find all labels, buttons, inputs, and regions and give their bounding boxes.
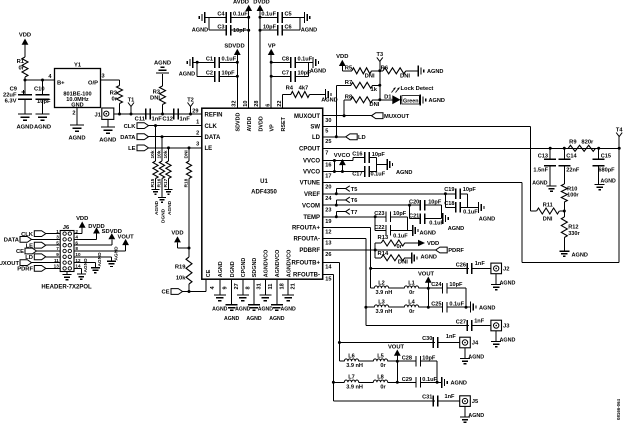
svg-text:9: 9 (222, 286, 228, 289)
connector J4 SMA (460, 337, 471, 348)
svg-text:7: 7 (56, 246, 59, 251)
svg-text:DVDD: DVDD (258, 116, 264, 131)
ground AGND (C10) (36, 113, 50, 115)
capacitor C14 22nF (563, 148, 565, 159)
svg-text:0.1uF: 0.1uF (393, 233, 408, 239)
svg-text:6: 6 (75, 240, 78, 245)
wire R1 to node (24, 77, 26, 80)
svg-text:AGND: AGND (448, 226, 464, 232)
svg-text:L4: L4 (408, 299, 415, 305)
resistor R7 1k (351, 82, 373, 88)
svg-text:DATA: DATA (205, 135, 221, 141)
svg-text:VP: VP (268, 43, 276, 49)
svg-text:AGND: AGND (396, 170, 412, 176)
resistor R1 0r (22, 57, 28, 77)
ground AGND sideways (C24 C25) (470, 302, 472, 313)
svg-text:7: 7 (325, 151, 328, 157)
ground pins under chip (219, 279, 221, 295)
svg-text:L7: L7 (348, 375, 355, 381)
wire SW to loop filter (323, 125, 531, 127)
ground AGND sideways (C4 C3) (204, 12, 206, 23)
svg-text:J3: J3 (503, 324, 510, 330)
svg-text:AGND: AGND (468, 413, 484, 419)
capacitor C25 0.1uF (428, 306, 442, 308)
svg-text:VREF: VREF (304, 192, 320, 198)
svg-text:10pF: 10pF (422, 356, 436, 362)
svg-text:AGND: AGND (83, 258, 89, 273)
svg-text:2: 2 (72, 111, 75, 117)
svg-text:VDD: VDD (171, 231, 183, 237)
capacitor C31 1nF (432, 396, 434, 407)
svg-text:R8: R8 (345, 94, 353, 100)
svg-text:AGND: AGND (154, 200, 160, 215)
power VDD (header pin 2) (74, 233, 82, 235)
svg-text:23: 23 (325, 207, 331, 213)
ground AGND (R17) (165, 189, 173, 191)
ground AGND sideways (C1 C2) (192, 57, 194, 68)
svg-text:L5: L5 (377, 354, 384, 360)
svg-text:LD: LD (358, 135, 366, 141)
svg-text:AGND: AGND (427, 69, 443, 75)
svg-text:C13: C13 (538, 154, 548, 160)
svg-text:AGND: AGND (34, 125, 51, 131)
power VP arrow (268, 49, 275, 55)
svg-text:AGNDVCO: AGNDVCO (264, 250, 270, 278)
ground AGND (C15) (595, 184, 605, 186)
svg-text:C5: C5 (285, 12, 292, 18)
svg-text:T5: T5 (351, 187, 358, 193)
svg-text:5: 5 (325, 129, 328, 135)
ground DGND (R16) (158, 197, 166, 199)
wire RFOUTB+ pin 14 (323, 261, 340, 263)
connector J1 SMA refin (102, 108, 114, 119)
power VDD (oscillator supply) (22, 39, 29, 45)
svg-text:D1: D1 (384, 95, 392, 101)
connector PDRF output (436, 247, 448, 253)
svg-text:30: 30 (325, 118, 331, 124)
svg-text:DNI: DNI (400, 73, 410, 79)
test point T3 (379, 61, 381, 70)
svg-text:10k: 10k (150, 150, 156, 158)
svg-text:1nF: 1nF (445, 394, 456, 400)
wire VOUT tie (C28 C29) (396, 361, 398, 382)
svg-text:VOUT: VOUT (388, 345, 405, 351)
capacitor C22 0.1uF (374, 217, 376, 231)
svg-text:VOUT: VOUT (418, 272, 435, 278)
ground AGND sideways (R4) (325, 89, 327, 100)
svg-text:J5: J5 (472, 399, 479, 405)
svg-text:R6: R6 (381, 65, 389, 71)
svg-text:AGND: AGND (68, 136, 85, 142)
svg-text:AGND: AGND (224, 316, 240, 322)
ground AGND (header pin 12) (74, 262, 95, 264)
svg-text:O/P: O/P (88, 81, 98, 87)
svg-text:29: 29 (192, 108, 198, 114)
svg-text:10k: 10k (157, 150, 163, 158)
resistor R17 10k (LE pulldown) (168, 148, 170, 161)
svg-text:J2: J2 (503, 266, 509, 272)
ground AGND (J2) (495, 274, 497, 285)
svg-text:RFOUTB+: RFOUTB+ (292, 261, 321, 267)
svg-text:AGND: AGND (321, 98, 337, 104)
ground AGND sideways (R6) (417, 65, 419, 76)
capacitor C26 1nF (466, 263, 468, 274)
capacitor C19 10pF (444, 192, 447, 195)
ground AGND (J3) (495, 331, 497, 342)
resistor R6 DNI (380, 70, 383, 72)
connector CE input (171, 289, 183, 295)
LED D1 Green Lock Detect (380, 99, 393, 101)
resistor R16 10k (DATA pulldown) (161, 137, 163, 161)
svg-text:R11: R11 (543, 203, 553, 209)
ground AGND sideways (C16 C17) (386, 159, 388, 170)
wire RFOUTB- pin 15 (323, 273, 334, 275)
svg-text:PDRF: PDRF (448, 248, 464, 254)
capacitor C17 0.1uF (364, 166, 366, 177)
svg-text:10pF: 10pF (263, 25, 277, 31)
svg-text:AGND: AGND (212, 307, 228, 313)
svg-text:T4: T4 (616, 127, 623, 133)
svg-text:AGND: AGND (179, 72, 195, 78)
svg-text:6: 6 (265, 104, 271, 107)
capacitor C15 680pF (598, 148, 600, 159)
wire MUXOUT to R8 (343, 100, 345, 116)
wire DATA to chip pin 2 (149, 136, 202, 138)
svg-text:VDD: VDD (427, 241, 439, 247)
svg-text:1nF: 1nF (152, 117, 163, 123)
svg-text:TEMP: TEMP (303, 215, 320, 221)
svg-text:DNI: DNI (398, 260, 408, 266)
capacitor C18 0.1uF (444, 194, 446, 208)
ground AGND (C13) (547, 185, 557, 187)
svg-text:0r: 0r (380, 384, 386, 390)
capacitor C2 10pF (197, 75, 214, 77)
power VOUT arrow (A) (425, 277, 432, 283)
svg-text:0r: 0r (409, 309, 415, 315)
svg-text:C14: C14 (566, 154, 577, 160)
svg-text:L8: L8 (377, 375, 384, 381)
svg-text:22: 22 (277, 100, 283, 106)
svg-text:AGND: AGND (310, 69, 326, 75)
svg-text:CE: CE (206, 269, 212, 277)
svg-text:R1: R1 (17, 59, 25, 65)
svg-text:T1: T1 (128, 97, 135, 103)
svg-text:3.9 nH: 3.9 nH (346, 384, 363, 390)
resistor R13 0r to VDD (374, 243, 376, 250)
connector LD output (346, 134, 358, 140)
capacitor C3 10pF (209, 29, 226, 31)
inductor L4 0r (389, 306, 405, 308)
svg-text:VDD: VDD (19, 33, 31, 39)
svg-text:DNI: DNI (365, 73, 375, 79)
svg-text:Y1: Y1 (74, 63, 82, 69)
svg-text:13: 13 (54, 264, 60, 269)
svg-text:0.1uF: 0.1uF (422, 377, 437, 383)
capacitor C29 0.1uF (397, 381, 416, 383)
svg-text:C1: C1 (206, 57, 213, 63)
svg-text:3.9 nH: 3.9 nH (376, 290, 393, 296)
wire VVCO pins 16 17 (323, 160, 353, 162)
svg-text:DNI: DNI (150, 96, 160, 102)
capacitor C1 0.1uF (197, 61, 214, 63)
svg-text:8: 8 (245, 286, 251, 289)
svg-text:AGND: AGND (500, 280, 516, 286)
wire CLK to chip pin 1 (149, 125, 202, 127)
svg-text:14: 14 (325, 265, 332, 271)
svg-text:3.9 nH: 3.9 nH (346, 363, 363, 369)
svg-text:C21: C21 (409, 214, 419, 220)
svg-text:18: 18 (280, 283, 286, 289)
svg-text:AGND: AGND (269, 316, 285, 322)
connector LD (header) (34, 254, 46, 260)
svg-text:1nF: 1nF (446, 334, 457, 340)
capacitor C24 10pF (428, 287, 442, 289)
svg-text:T6: T6 (351, 198, 358, 204)
svg-text:CLK: CLK (205, 124, 218, 130)
svg-text:0r: 0r (112, 97, 118, 103)
svg-text:RFOUTA-: RFOUTA- (293, 237, 320, 243)
svg-text:C30: C30 (422, 336, 432, 342)
svg-text:AGND: AGND (258, 307, 274, 313)
svg-text:Lock Detect: Lock Detect (401, 86, 434, 92)
svg-text:10: 10 (243, 100, 249, 106)
connector DATA input (137, 134, 149, 140)
ground AGND (R15) (152, 189, 160, 191)
power VOUT arrow (B) (394, 350, 401, 356)
test point T7 (335, 215, 338, 218)
ground AGND (J1) (101, 126, 115, 128)
capacitor C12 1nF (series) (173, 109, 175, 120)
inductor L2 3.9nH (371, 287, 375, 289)
svg-text:14: 14 (75, 264, 81, 269)
wire RFOUTB- to C31 (333, 400, 435, 402)
svg-text:15: 15 (325, 277, 331, 283)
wire RFOUTA- pin 13 (323, 237, 366, 239)
svg-text:10pF: 10pF (449, 282, 463, 288)
svg-text:AGND: AGND (16, 125, 33, 131)
svg-text:REFIN: REFIN (205, 113, 223, 119)
ground AGND sideways (C20 C21) (442, 213, 444, 224)
svg-text:10pF: 10pF (463, 187, 477, 193)
svg-text:ADF4350: ADF4350 (251, 190, 277, 196)
svg-text:T7: T7 (351, 210, 358, 216)
capacitor C28 10pF (397, 360, 416, 362)
svg-text:4: 4 (75, 235, 78, 240)
svg-text:12: 12 (325, 230, 331, 236)
svg-text:1nF: 1nF (475, 261, 486, 267)
svg-text:MUXOUT: MUXOUT (384, 114, 410, 120)
svg-text:0r: 0r (397, 244, 403, 250)
power AVDD arrow (245, 5, 252, 11)
ground AGND (header pin 14) (74, 267, 81, 269)
svg-text:C7: C7 (282, 71, 289, 77)
svg-text:R4: R4 (286, 86, 294, 92)
inductor L6 3.9nH (339, 360, 344, 362)
svg-text:VVCO: VVCO (303, 170, 320, 176)
svg-text:U1: U1 (260, 179, 268, 185)
svg-text:820r: 820r (581, 140, 594, 146)
connector DATA (header) (20, 237, 32, 243)
svg-text:CE: CE (16, 249, 24, 255)
ground AGND sideways (C23 C22) (412, 225, 414, 236)
svg-text:LD: LD (312, 135, 321, 141)
svg-text:AGND: AGND (99, 138, 116, 144)
svg-text:19: 19 (325, 219, 331, 225)
svg-text:11: 11 (54, 258, 59, 263)
svg-text:AGND: AGND (167, 200, 173, 215)
svg-text:0.1uF: 0.1uF (261, 12, 276, 18)
test point T5 (335, 192, 338, 195)
test point T6 (335, 204, 338, 207)
svg-text:R13: R13 (378, 235, 389, 241)
ground AGND (R12) (559, 250, 569, 252)
svg-text:SDVDD: SDVDD (236, 113, 242, 132)
resistor R2 0r (117, 86, 123, 104)
ground AGND (C9) (18, 113, 32, 115)
svg-text:R12: R12 (568, 225, 578, 231)
ground AGND sideways (R14) (411, 252, 413, 263)
svg-text:VVCO: VVCO (334, 153, 351, 159)
connector J2 SMA (491, 263, 502, 274)
svg-text:C2: C2 (206, 71, 213, 77)
ground AGND (header pin 10) (74, 256, 112, 258)
svg-text:8: 8 (75, 246, 78, 251)
resistor R18 DNI (LE pull to VDD) (188, 148, 190, 161)
svg-text:C16: C16 (352, 151, 362, 157)
svg-text:AGND: AGND (421, 254, 437, 260)
wire CPOUT to loop filter (323, 147, 620, 149)
svg-text:L6: L6 (348, 354, 355, 360)
power VDD (R5 pull-up) (339, 60, 346, 66)
svg-text:DVDD: DVDD (253, 0, 269, 6)
ground AGND above R3 (flipped) (156, 72, 169, 74)
svg-text:17: 17 (325, 174, 331, 180)
ground AGND sideways (C8 C7) (312, 57, 314, 68)
connector MUXOUT (header) (20, 260, 32, 266)
capacitor C27 1nF (466, 320, 468, 331)
connector J5 SMA (460, 396, 471, 407)
svg-text:1k: 1k (371, 87, 378, 93)
svg-text:C22: C22 (374, 225, 384, 231)
capacitor C23 10pF (374, 215, 377, 218)
svg-text:AGND: AGND (572, 253, 588, 259)
inductor L3 3.9nH (366, 306, 374, 308)
connector CE (header) (25, 248, 37, 254)
svg-text:680pF: 680pF (598, 168, 615, 174)
svg-text:AGND: AGND (154, 61, 171, 67)
test point T2 (190, 107, 192, 115)
power VDD (CE pull-up) (174, 236, 181, 242)
svg-text:VTUNE: VTUNE (300, 181, 320, 187)
svg-text:C12: C12 (162, 117, 173, 123)
svg-text:AGND: AGND (97, 252, 103, 267)
connector LE input (137, 145, 149, 151)
svg-text:0r: 0r (409, 290, 415, 296)
connector CLK (header) (34, 231, 46, 237)
power VOUT (header pin 8) (74, 250, 126, 252)
wire RFOUTA- to C27 (366, 325, 469, 327)
resistor R5 DNI (352, 68, 372, 74)
svg-text:1nF: 1nF (180, 117, 191, 123)
wire J1 to ground (107, 119, 109, 127)
power SDVDD (header pin 6) (74, 244, 112, 246)
svg-text:RFOUTA+: RFOUTA+ (292, 226, 321, 232)
LED emission arrows and Lock Detect label (392, 88, 396, 93)
svg-text:C18: C18 (444, 201, 454, 207)
svg-text:VOUT: VOUT (118, 234, 135, 240)
ground AGND (J4) (464, 348, 466, 359)
svg-text:9: 9 (56, 252, 59, 257)
inductor L8 0r (359, 381, 374, 383)
svg-text:VDD: VDD (76, 216, 88, 222)
svg-text:24: 24 (325, 196, 332, 202)
svg-text:AGND: AGND (280, 307, 296, 313)
svg-text:PDBRF: PDBRF (299, 248, 320, 254)
capacitor C4 0.1uF (209, 16, 226, 18)
wire T3 node (379, 61, 381, 99)
svg-text:AGND: AGND (113, 246, 119, 261)
svg-text:10pF: 10pF (372, 152, 386, 158)
svg-text:1: 1 (56, 229, 59, 234)
svg-text:DGND: DGND (160, 208, 166, 223)
svg-text:0r: 0r (380, 363, 386, 369)
resistor R10 100r (563, 166, 565, 184)
resistor R12 330r (561, 217, 567, 238)
svg-text:B+: B+ (57, 81, 65, 87)
svg-text:32: 32 (232, 100, 238, 106)
svg-text:AGND: AGND (468, 354, 484, 360)
svg-text:AGND: AGND (601, 178, 617, 184)
svg-text:MUXOUT: MUXOUT (294, 114, 320, 120)
svg-text:10pF: 10pF (222, 71, 236, 77)
capacitor C5 0.1uF (260, 16, 278, 18)
svg-text:R7: R7 (345, 80, 352, 86)
svg-text:2: 2 (196, 131, 199, 137)
svg-text:VP: VP (270, 124, 276, 132)
svg-text:Green: Green (403, 98, 419, 104)
wire CE to chip pin 4 (183, 291, 207, 293)
svg-text:AGND: AGND (479, 306, 495, 312)
wire RFOUTA+ pin 12 (323, 227, 371, 229)
svg-text:0.1uF: 0.1uF (463, 209, 478, 215)
svg-text:T3: T3 (377, 52, 384, 58)
ground AGND sideways (C5 C6) (303, 12, 305, 23)
svg-text:AGND: AGND (235, 307, 251, 313)
connector PDRF (header) (34, 266, 46, 272)
ground AGND sideways (C19 C18) (478, 202, 480, 213)
resistor R8 DNI (351, 97, 373, 103)
svg-text:C17: C17 (352, 171, 362, 177)
svg-text:CLK: CLK (124, 124, 137, 130)
wire LD to R7 (335, 85, 337, 137)
svg-text:AGND: AGND (500, 337, 516, 343)
svg-text:100r: 100r (567, 193, 579, 199)
svg-text:DNI: DNI (184, 150, 190, 159)
svg-text:C23: C23 (374, 211, 384, 217)
wire supply node to Y1 pin 4 (25, 79, 55, 81)
svg-text:AGND: AGND (479, 217, 495, 223)
svg-text:HEADER-7X2POL: HEADER-7X2POL (41, 285, 92, 291)
svg-text:AGNDVCO: AGNDVCO (286, 250, 292, 278)
resistor R19 10k (188, 248, 190, 257)
svg-text:AGND: AGND (246, 316, 262, 322)
svg-text:L2: L2 (378, 281, 385, 287)
capacitor C8 0.1uF (271, 61, 290, 63)
power DVDD (header pin 4) (74, 238, 97, 240)
wire LE to chip pin 3 (149, 147, 202, 149)
svg-text:DGND: DGND (230, 261, 236, 277)
resistor R14 DNI to AGND (374, 250, 376, 258)
